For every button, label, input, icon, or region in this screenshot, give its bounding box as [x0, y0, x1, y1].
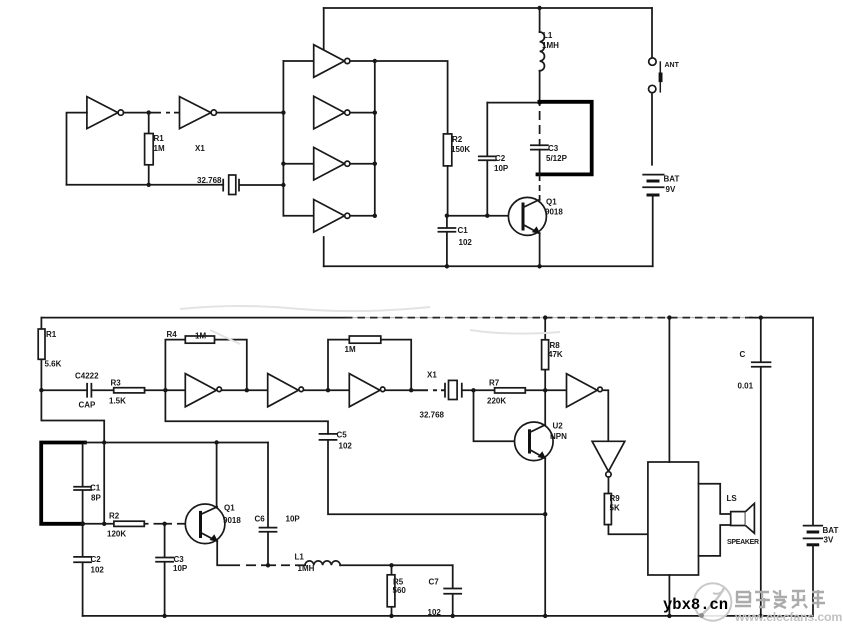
- resistor R2 150K: [443, 134, 451, 166]
- thick shield box around C3: [538, 102, 592, 175]
- inverter U3C: [349, 374, 380, 407]
- inductor L1 1MH: [539, 8, 541, 32]
- svg-text:0.01: 0.01: [738, 382, 754, 391]
- wire C3 bottom to collector: [539, 150, 541, 200]
- capacitor C5 102: [320, 434, 546, 514]
- wire emitter down to bottom rail: [544, 458, 546, 616]
- svg-text:102: 102: [339, 442, 353, 451]
- wire emitter down: [539, 233, 541, 266]
- inductor L1 1MH: [305, 561, 340, 565]
- battery BAT 9V: [643, 174, 663, 176]
- svg-text:Q1: Q1: [546, 198, 557, 207]
- transistor Q1 9018: [508, 197, 546, 235]
- wire output stubs: [350, 61, 375, 216]
- wire U3C out to crystal: [385, 389, 443, 391]
- wire U1A output to U1B: [124, 112, 180, 114]
- capacitor C2 10P: [479, 103, 496, 216]
- resistor R1 5.6K: [40, 318, 42, 391]
- node R8 rail junction: [543, 315, 547, 319]
- inverter U3E pointing down: [592, 441, 625, 471]
- svg-text:C1: C1: [90, 484, 101, 493]
- svg-text:47K: 47K: [548, 350, 563, 359]
- svg-text:X1: X1: [427, 371, 437, 380]
- svg-text:9018: 9018: [223, 516, 241, 525]
- svg-text:9V: 9V: [666, 185, 676, 194]
- wire top rail (right solid): [750, 317, 813, 319]
- wire R2 node: [83, 523, 114, 525]
- wire bottom rail: [83, 615, 813, 617]
- svg-text:C2: C2: [495, 154, 506, 163]
- inverter U1A: [87, 97, 118, 129]
- wire speaker bracket bottom: [699, 525, 731, 556]
- node C1 rail junction: [445, 264, 449, 268]
- node emitter/C5 junction: [543, 512, 547, 516]
- wire U3B out to U3C: [304, 389, 349, 391]
- resistor R9 5K: [604, 494, 611, 525]
- node box-top/branch junction: [102, 440, 106, 444]
- wire Q1 collector up: [216, 443, 218, 508]
- wire R2 bottom to base node: [447, 166, 449, 216]
- node U3C output junction: [409, 388, 413, 392]
- svg-text:X1: X1: [195, 144, 205, 153]
- wire inverter bank bottom drop: [323, 237, 325, 266]
- variable capacitor C3 5/12P: [531, 145, 548, 149]
- svg-text:120K: 120K: [107, 530, 126, 539]
- battery BAT 3V: [804, 525, 823, 527]
- node bus crystal junction: [281, 183, 285, 187]
- node R1 top junction: [147, 110, 151, 114]
- wire top rail (dashed middle): [345, 317, 753, 319]
- svg-text:5.6K: 5.6K: [45, 360, 62, 369]
- wire U3D output to down inverter: [603, 390, 609, 441]
- svg-text:L1: L1: [543, 31, 553, 40]
- transistor Q1 9018: [185, 504, 225, 544]
- wire input bus: [282, 61, 284, 216]
- svg-text:SPEAKER: SPEAKER: [727, 539, 759, 546]
- svg-text:10P: 10P: [173, 564, 188, 573]
- inverter U1C: [314, 45, 345, 78]
- node bus-U1B junction: [281, 110, 285, 114]
- svg-text:R7: R7: [489, 379, 500, 388]
- node L1/C3 junction: [537, 100, 541, 104]
- node C rail junction: [759, 315, 763, 319]
- svg-text:U2: U2: [553, 422, 564, 431]
- svg-text:5/12P: 5/12P: [546, 154, 568, 163]
- wire box top to C6: [85, 442, 268, 444]
- capacitor C6 10P: [260, 443, 277, 566]
- node collector top junction: [214, 440, 218, 444]
- svg-text:www.elecfans.com: www.elecfans.com: [734, 610, 842, 624]
- node base/C3 junction: [162, 522, 166, 526]
- wire R9 from down inverter: [607, 477, 609, 493]
- svg-text:1M: 1M: [154, 144, 165, 153]
- node rail junctions: [162, 614, 166, 618]
- inverter U1F: [314, 200, 345, 233]
- svg-text:R1: R1: [154, 134, 165, 143]
- watermark chinese characters: [735, 590, 825, 608]
- node C2 base junction: [485, 214, 489, 218]
- svg-text:32.768: 32.768: [420, 411, 445, 420]
- svg-text:10P: 10P: [494, 164, 509, 173]
- svg-text:C3: C3: [548, 144, 559, 153]
- svg-text:C1: C1: [458, 226, 469, 235]
- resistor R8 47K: [544, 318, 546, 391]
- wire right rail to battery: [812, 318, 814, 526]
- svg-text:150K: 150K: [451, 145, 470, 154]
- inverter U3A: [185, 374, 216, 407]
- node base node junction: [445, 214, 449, 218]
- node rail L1 junction: [537, 6, 541, 10]
- IC box: [648, 462, 699, 575]
- wire speaker bracket top: [699, 484, 731, 514]
- wire U1B output to input bus: [217, 112, 284, 114]
- wire input stubs: [283, 61, 313, 216]
- svg-text:102: 102: [459, 238, 473, 247]
- watermark logo ball: [694, 583, 731, 620]
- wire base wire: [447, 215, 523, 217]
- antenna ANT terminals: [651, 8, 653, 165]
- svg-text:C2: C2: [91, 555, 102, 564]
- wire bottom rail: [324, 265, 653, 267]
- transistor U2 NPN: [515, 422, 554, 461]
- capacitor C7 102: [444, 565, 461, 616]
- svg-text:220K: 220K: [487, 397, 506, 406]
- wire top rail (left solid): [41, 317, 345, 319]
- node R1 bottom junction: [147, 183, 151, 187]
- wire R2 to Q1 base: [144, 523, 200, 525]
- resistor R1 1M: [148, 113, 150, 185]
- wire U3A out to U3B: [222, 389, 268, 391]
- wire NPN base from crystal node: [474, 390, 530, 441]
- resistor R3 1.5K: [114, 388, 145, 393]
- inverter U3B: [268, 374, 299, 407]
- svg-text:L1: L1: [295, 553, 305, 562]
- svg-text:R8: R8: [550, 341, 561, 350]
- wire top rail: [324, 7, 652, 9]
- svg-text:C: C: [740, 350, 746, 359]
- wire R9 to IC: [608, 525, 647, 535]
- resistor R2 120K: [114, 521, 144, 526]
- wire IC top to rail: [668, 318, 670, 462]
- svg-text:C5: C5: [337, 431, 348, 440]
- wire R7 to inverter: [525, 389, 566, 391]
- node C1 bottom junction: [80, 521, 85, 526]
- jpeg-style wire gaps: [149, 106, 540, 565]
- svg-text:C4222: C4222: [75, 372, 99, 381]
- wire branch down to R2 node: [103, 443, 105, 524]
- capacitor C 0.01: [752, 318, 771, 616]
- wire node A down and over: [41, 390, 104, 442]
- svg-text:1.5K: 1.5K: [109, 397, 126, 406]
- inverter U1B: [180, 97, 211, 129]
- svg-text:C3: C3: [174, 555, 185, 564]
- resistor 1M second feedback: [328, 340, 411, 391]
- svg-text:3V: 3V: [824, 536, 834, 545]
- svg-text:102: 102: [91, 566, 105, 575]
- wire collector up to R8 node: [544, 390, 546, 425]
- svg-text:R9: R9: [610, 494, 621, 503]
- svg-text:CAP: CAP: [79, 401, 97, 410]
- node C6 bottom junction: [266, 563, 270, 567]
- wire L1 to R5/C7: [340, 564, 453, 566]
- wire bottom of oscillator loop: [67, 184, 224, 186]
- wire output bus: [374, 61, 376, 216]
- node A junction: [39, 388, 43, 392]
- inverter U1E: [314, 147, 345, 180]
- wire Q1 emitter down and right: [217, 541, 305, 566]
- svg-text:8P: 8P: [91, 494, 101, 503]
- wire output bus to R2: [375, 61, 448, 134]
- resistor R5 560: [391, 565, 393, 616]
- svg-text:32.768: 32.768: [197, 176, 222, 185]
- wire R3 to node B: [145, 389, 186, 391]
- node R5 top junction: [389, 563, 393, 567]
- node U3A output junction: [245, 388, 249, 392]
- svg-text:1M: 1M: [345, 345, 356, 354]
- node branch bottom junction: [102, 522, 106, 526]
- speaker LS: [731, 512, 746, 526]
- svg-text:R1: R1: [46, 330, 57, 339]
- wire IC bottom to rail: [668, 575, 670, 616]
- node emitter rail junction: [537, 264, 541, 268]
- thick frame antenna coil box: [41, 443, 85, 524]
- wire feedback to C5: [165, 390, 328, 434]
- svg-text:R4: R4: [167, 330, 178, 339]
- capacitor C4222 CAP: [41, 384, 113, 397]
- svg-text:560: 560: [393, 586, 407, 595]
- node U3B output junction: [326, 388, 330, 392]
- svg-text:5K: 5K: [610, 504, 620, 513]
- svg-text:ANT: ANT: [665, 62, 680, 69]
- node crystal right junction: [471, 388, 475, 392]
- node B junction: [163, 388, 167, 392]
- svg-text:9018: 9018: [545, 208, 563, 217]
- svg-text:ybx8.cn: ybx8.cn: [663, 596, 728, 614]
- inverter U1D: [314, 96, 345, 129]
- wire rail drop to inverter bank top: [323, 8, 325, 50]
- svg-text:R2: R2: [452, 135, 463, 144]
- node bus inverter3 junction: [281, 162, 285, 166]
- node R8 bottom junction: [543, 388, 547, 392]
- svg-text:BAT: BAT: [664, 175, 680, 184]
- capacitor C3 10P: [156, 524, 173, 616]
- svg-text:LS: LS: [727, 494, 738, 503]
- svg-text:C6: C6: [255, 515, 266, 524]
- svg-text:1M: 1M: [195, 332, 206, 341]
- resistor R7 220K: [495, 388, 526, 393]
- capacitor C1 102: [438, 216, 455, 267]
- svg-text:R3: R3: [111, 379, 122, 388]
- node IC rail junction: [667, 315, 671, 319]
- svg-text:Q1: Q1: [224, 504, 235, 513]
- watermark smudge band: [180, 306, 560, 344]
- wire C2 top to L1 node: [487, 102, 539, 104]
- capacitor C2 102: [74, 524, 91, 616]
- wire inverter U1A input loop: [67, 113, 87, 185]
- svg-text:BAT: BAT: [823, 526, 839, 535]
- svg-text:NPN: NPN: [550, 432, 567, 441]
- svg-text:1MH: 1MH: [542, 41, 559, 50]
- svg-text:C7: C7: [429, 578, 440, 587]
- svg-text:R2: R2: [109, 512, 120, 521]
- node output junctions: [373, 59, 377, 63]
- svg-text:1MH: 1MH: [298, 564, 315, 573]
- svg-text:10P: 10P: [286, 515, 301, 524]
- capacitor C1 8P: [74, 444, 91, 524]
- inverter U3D: [567, 374, 598, 407]
- resistor R4 1M feedback: [165, 340, 246, 391]
